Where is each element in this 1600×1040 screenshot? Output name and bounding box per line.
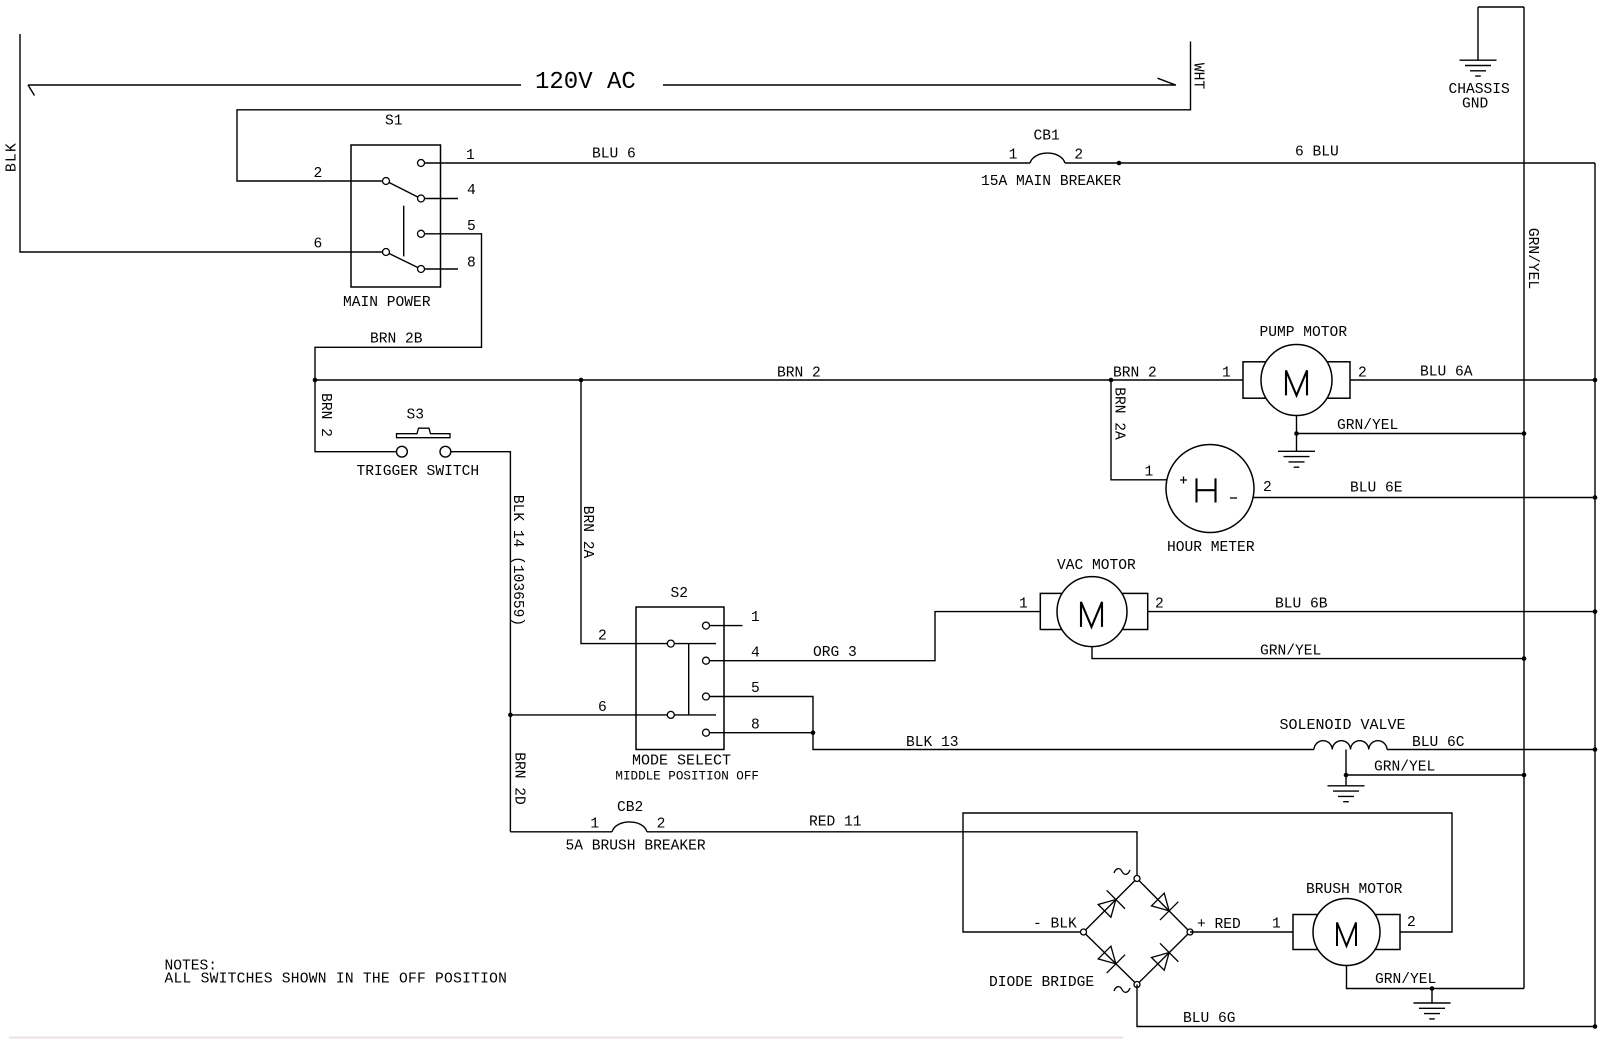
svg-text:ORG 3: ORG 3 [813,645,857,661]
wire BLU 6G (bridge AC bottom to right bus) [1137,985,1595,1027]
label M (vac) [1081,602,1102,627]
junction right bus BLU 6A [1593,378,1598,383]
svg-text:BLK: BLK [4,142,20,172]
svg-text:2: 2 [1263,480,1272,496]
S2 contact pin 6 [667,711,674,718]
wire S2 pin 1 stub [710,625,743,627]
junction BRN 2A branch node [579,378,584,383]
svg-text:BRN 2: BRN 2 [1113,366,1157,382]
S1 switch arm 6-8 [389,254,418,268]
junction right bus BLU 6G [1593,1024,1598,1029]
label M (brush) [1337,923,1356,947]
S1 contact pin 1 [418,160,425,167]
S1 switch arm 2-4 [389,183,418,198]
bridge minus node [1081,929,1087,935]
wire RED 11 (CB2 to diode bridge AC top) [647,832,1137,876]
wire vac GRN/YEL to bus [1092,647,1524,659]
motor VAC MOTOR rectangle [1040,593,1147,629]
wire bridge plus to brush motor pin 1 [1190,931,1293,933]
svg-text:BRUSH MOTOR: BRUSH MOTOR [1306,882,1403,898]
wire BRN 2 horizontal bus [315,379,1243,381]
bridge AC top node [1134,876,1140,882]
svg-text:BLU 6C: BLU 6C [1412,735,1465,751]
wire BLU 6C (solenoid to right bus) [1387,749,1595,751]
svg-text:1: 1 [1222,366,1231,382]
S2 mechanical link bar [688,644,690,715]
wire S1 pin 8 stub [425,268,459,270]
svg-text:5: 5 [467,219,476,235]
svg-text:4: 4 [751,645,760,661]
wire BLU 6E (hour meter to right bus) [1253,497,1595,499]
S1 contact pin 8 [418,266,425,273]
svg-text:GRN/YEL: GRN/YEL [1260,644,1321,660]
wire BRN 2B (S1 pin 5 down and over to BRN 2 node) [315,234,482,380]
S2 contact pin 4 [703,657,710,664]
svg-text:BLU 6B: BLU 6B [1275,597,1328,613]
junction solenoid ground tee [1344,773,1349,778]
svg-text:BLU 6G: BLU 6G [1183,1011,1236,1027]
motor BRUSH MOTOR circle [1313,899,1380,966]
bridge AC bottom node [1134,982,1140,988]
svg-text:GND: GND [1462,97,1489,113]
svg-text:CB1: CB1 [1034,129,1061,145]
svg-text:RED 11: RED 11 [809,814,862,830]
svg-text:6: 6 [598,700,607,716]
wire blue right bus (vertical) [1594,163,1596,1027]
svg-text:GRN/YEL: GRN/YEL [1524,228,1540,289]
svg-text:MIDDLE POSITION OFF: MIDDLE POSITION OFF [615,769,759,783]
svg-text:TRIGGER SWITCH: TRIGGER SWITCH [357,464,480,480]
junction on 6 BLU wire [1117,161,1122,166]
S2 switch arm lower (off position) [674,714,716,716]
diode bridge diamond edges [1084,879,1191,985]
svg-text:2: 2 [314,166,323,182]
svg-text:BRN 2: BRN 2 [777,366,821,382]
S2 contact pin 5 [703,693,710,700]
motor BRUSH MOTOR rectangle [1293,915,1400,950]
diode D4 (AC bottom to plus) [1149,943,1179,973]
svg-text:BRN 2D: BRN 2D [511,752,527,805]
bridge plus node [1187,929,1193,935]
svg-text:BLU 6A: BLU 6A [1420,365,1473,381]
faint page edge line at bottom [9,1037,1123,1039]
svg-text:1: 1 [1019,597,1028,613]
svg-text:8: 8 [467,255,476,271]
svg-text:BLK 13: BLK 13 [906,735,959,751]
svg-text:+ RED: + RED [1197,917,1241,933]
svg-text:BRN 2: BRN 2 [317,393,333,437]
S3 contact left [397,446,408,457]
S1 mechanical link bar [403,206,405,257]
wire 120V AC span line, left segment with tick [28,85,521,96]
junction pins 5/8 [811,730,816,735]
wire WHT (neutral: top right vertical, across to S1 pin 2) [237,42,1191,182]
wire BLU 6 (S1 pin 1 to CB1) [425,162,1031,164]
svg-text:GRN/YEL: GRN/YEL [1337,418,1398,434]
svg-text:BRN 2B: BRN 2B [370,332,423,348]
svg-text:MAIN POWER: MAIN POWER [343,295,431,311]
svg-text:CB2: CB2 [617,800,643,816]
ground symbol (brush motor) [1414,989,1451,1019]
chassis ground top wire [1478,7,1524,60]
svg-text:BRN 2A: BRN 2A [579,506,595,559]
junction right bus BLU 6E [1593,495,1598,500]
svg-text:GRN/YEL: GRN/YEL [1374,760,1435,776]
junction right bus BLU 6B [1593,609,1598,614]
wire pump GRN/YEL to bus [1297,416,1525,434]
ground symbol (solenoid valve) [1328,775,1365,802]
label M (pump) [1286,370,1307,395]
switch S2 MODE SELECT box [636,607,724,750]
wire BRN 2 down to trigger switch [315,380,397,452]
svg-text:DIODE BRIDGE: DIODE BRIDGE [989,975,1094,991]
diode D1 (minus to AC top) [1095,890,1125,920]
diode D2 (AC top to plus) [1149,890,1179,920]
wire brush GRN/YEL to bus [1347,966,1525,989]
svg-text:S2: S2 [671,586,689,602]
wire ORG 3 (S2 pin 4 to vac motor) [710,612,1041,661]
svg-text:BLK 14 (103659): BLK 14 (103659) [509,495,525,626]
S2 contact pin 1 [703,622,710,629]
svg-text:GRN/YEL: GRN/YEL [1375,972,1436,988]
motor PUMP MOTOR circle [1261,345,1332,416]
svg-text:2: 2 [657,817,666,833]
svg-text:HOUR METER: HOUR METER [1167,540,1255,556]
breaker CB1 arc [1030,153,1065,163]
wire BLU 6B (vac to right bus) [1148,611,1595,613]
svg-text:PUMP MOTOR: PUMP MOTOR [1260,325,1348,341]
wire 6 BLU (CB1 to right bus) [1065,162,1595,164]
ground symbol (pump motor) [1278,434,1315,468]
svg-text:MODE SELECT: MODE SELECT [632,753,731,770]
svg-text:1: 1 [590,817,599,833]
label H (hour meter) [1197,478,1216,502]
S2 switch arm upper (off position) [674,643,716,645]
wire solenoid GRN/YEL to bus [1346,750,1524,776]
ground symbol CHASSIS GND [1460,60,1497,76]
svg-text:- BLK: - BLK [1033,917,1077,933]
solenoid valve coil [1314,741,1387,750]
junction BLK14 / S2 pin 6 [508,713,513,718]
wire S2 pin 8 lead [710,732,814,734]
junction GRN/YEL bus (vac) [1522,656,1527,661]
wire BLU 6A (pump to right bus) [1350,379,1595,381]
svg-text:S1: S1 [385,114,403,130]
S3 contact right [440,446,451,457]
svg-text:BLU 6: BLU 6 [592,147,636,163]
bridge AC tilde bottom [1114,987,1130,993]
hour meter plus mark [1180,477,1187,484]
wire 120V AC span line, right segment with arrowhead [663,78,1176,85]
breaker CB2 lead from BLK14 [510,831,612,833]
S1 contact pin 5 [418,230,425,237]
svg-text:8: 8 [751,717,760,733]
svg-text:S3: S3 [407,408,425,424]
wire S2 pin 5 to pin 8 tie [710,697,814,733]
svg-text:1: 1 [1272,917,1281,933]
wire S2 pin 6 lead [510,714,667,716]
svg-text:SOLENOID VALVE: SOLENOID VALVE [1280,717,1406,734]
junction pump ground tee [1294,431,1299,436]
motor PUMP MOTOR rectangle [1243,362,1350,398]
S2 contact pin 2 [667,640,674,647]
wire BRN 2A (branch down to S2 pin 2) [581,380,667,644]
breaker CB2 arc [612,822,647,832]
junction brush ground tee [1430,986,1435,991]
S2 contact pin 8 [703,729,710,736]
svg-text:5: 5 [751,681,760,697]
wire BLK 13 (S2 to solenoid valve) [813,733,1314,750]
svg-text:15A MAIN BREAKER: 15A MAIN BREAKER [981,174,1121,190]
svg-text:1: 1 [466,148,475,164]
motor VAC MOTOR circle [1057,577,1127,647]
svg-text:2: 2 [1074,147,1083,163]
svg-text:1: 1 [1145,465,1154,481]
junction GRN/YEL bus (pump) [1522,431,1527,436]
switch S1 MAIN POWER box [351,145,441,287]
wire GRN/YEL ground bus (vertical) [1523,7,1525,989]
svg-text:120V AC: 120V AC [535,69,636,96]
svg-text:2: 2 [1155,597,1164,613]
junction GRN/YEL bus (solenoid) [1522,773,1527,778]
svg-text:WHT: WHT [1190,63,1206,90]
wire BLK (left vertical hot lead to S1 pin 6) [20,34,383,252]
wire S1 pin 4 stub [425,198,459,200]
S1 contact pin 2 [383,178,390,185]
svg-text:VAC MOTOR: VAC MOTOR [1057,558,1136,574]
svg-text:1: 1 [751,610,760,626]
svg-text:2: 2 [1358,366,1367,382]
switch S3 trigger pushbutton actuator [397,428,451,438]
svg-text:BLU 6E: BLU 6E [1350,481,1403,497]
svg-text:1: 1 [1009,147,1018,163]
svg-text:2: 2 [1407,915,1416,931]
wire brush loop frame (bridge minus around to brush motor pin 2) [963,813,1452,932]
svg-text:2: 2 [598,629,607,645]
svg-text:ALL SWITCHES SHOWN IN THE OFF: ALL SWITCHES SHOWN IN THE OFF POSITION [165,972,508,988]
wire BRN 2A (hour meter branch) [1111,380,1167,480]
hour meter minus mark [1230,497,1237,499]
junction right bus BLU 6C [1593,747,1598,752]
svg-text:5A BRUSH BREAKER: 5A BRUSH BREAKER [566,838,706,854]
svg-text:BRN 2A: BRN 2A [1111,387,1127,440]
diode D3 (minus to AC bottom) [1095,943,1125,973]
bridge AC tilde top [1114,869,1130,875]
S1 contact pin 6 [383,249,390,256]
wire BLK 14 (trigger switch down to CB2) [451,452,511,832]
junction BRN 2A hour-meter branch node [1109,378,1114,383]
svg-text:6: 6 [314,236,323,252]
junction BRN 2B / BRN 2 node [313,378,318,383]
S1 contact pin 4 [418,195,425,202]
svg-text:4: 4 [467,183,476,199]
svg-text:6 BLU: 6 BLU [1295,145,1339,161]
meter HOUR METER circle [1166,445,1254,533]
